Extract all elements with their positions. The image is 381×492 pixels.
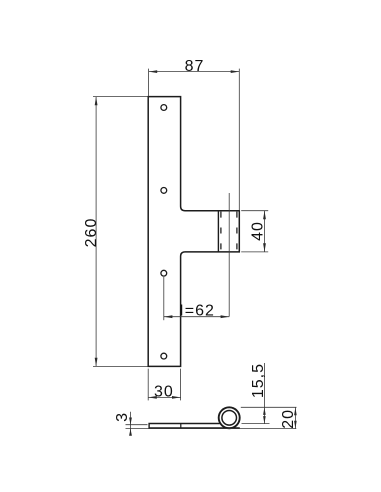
svg-text:I=62: I=62 [179,303,215,320]
dimension 3 line [130,412,132,432]
dimension 3 arrow bottom (outside, pointing up) [129,429,132,436]
hole 3 [161,270,167,276]
knuckle left edge (front view, solid) [217,211,219,252]
svg-text:3: 3 [114,412,131,422]
dimension 30 arrow right [172,396,181,399]
dimension 30 arrow left [148,396,157,399]
hole 1 [161,105,167,111]
dimension 20 arrow top [294,407,297,415]
svg-text:20: 20 [280,409,297,429]
dimension 87 extension line right [238,69,240,211]
dimension 30 extension line right [180,369,182,401]
dimension 40 extension line top [241,210,268,212]
dimension 15,5 arrow bottom (pointing down) [263,416,266,424]
dimension 15,5 line [263,363,265,424]
dimension 30 line [148,396,180,398]
dimension I=62 line [164,316,229,318]
dimension 87 extension line left [148,69,150,97]
dimension 3 extension line top [126,424,148,426]
dimension 260 line [95,97,97,367]
dimension I=62 extension line (hole center) [163,277,165,320]
knuckle hidden line left (dashed) [220,212,222,252]
dimension 260 arrow top [95,97,98,106]
dimension 40 arrow bottom [263,243,266,252]
knuckle hidden line right (dashed) [236,212,238,252]
plate outline (front view of T-hinge leaf) [148,97,239,367]
side view plate edge tick [180,424,182,429]
dimension 260 extension line bottom [93,365,148,367]
hole 2 [161,188,167,194]
dimension 87 arrow right [231,70,240,73]
dimension 87 arrow left [149,70,158,73]
dimension 87 line [149,71,240,73]
knuckle top extension line (for 15,5 and 20) [241,406,297,408]
dimension 20 arrow bottom [294,421,297,429]
svg-text:30: 30 [154,384,174,401]
dimension 40 line [264,211,266,252]
dimension 40 arrow top [263,211,266,220]
dimension 30 extension line left [147,369,149,401]
strip top extension line (for 15,5) [242,423,270,425]
knuckle centerline [228,193,230,317]
svg-text:40: 40 [250,221,267,241]
hole 4 [161,353,167,359]
dimension 15,5 arrow top (pointing up) [263,407,266,415]
knuckle inner circle (side view) [222,411,237,426]
svg-text:15,5: 15,5 [250,363,267,398]
dimension I=62 arrow left [164,315,173,318]
svg-text:260: 260 [83,218,100,248]
dimension 40 extension line bottom [241,251,268,253]
dimension 20 line [294,407,296,428]
side view strip (edge view of leaf) [149,424,240,429]
dimension 260 arrow bottom [95,358,98,367]
dimension I=62 arrow right [221,315,230,318]
svg-text:87: 87 [185,58,205,75]
bottom datum thin line [126,428,297,430]
dimension 260 extension line top [93,96,148,98]
dimension 3 arrow top (outside, pointing down) [129,418,132,425]
knuckle outer circle (side view) [219,407,240,428]
